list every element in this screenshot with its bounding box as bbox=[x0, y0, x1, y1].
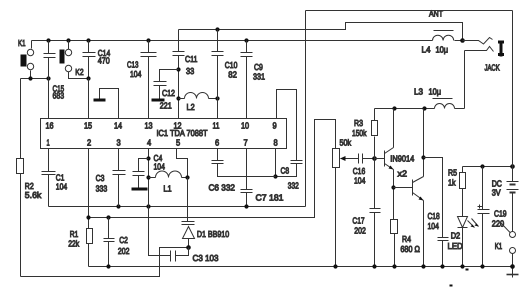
wire supply line R5 C19 battery bbox=[463, 166, 513, 168]
jack sleeve contact bbox=[465, 47, 494, 52]
svg-text:R1: R1 bbox=[70, 229, 79, 239]
resistor R4 bbox=[391, 220, 398, 267]
svg-text:332: 332 bbox=[288, 180, 299, 190]
switch K1 power bbox=[501, 223, 516, 267]
svg-text:221: 221 bbox=[160, 101, 172, 111]
switch K2 bbox=[60, 41, 89, 79]
svg-text:C3: C3 bbox=[96, 173, 105, 183]
svg-text:150k: 150k bbox=[352, 128, 367, 138]
wire pin14 to ground bbox=[100, 89, 119, 119]
svg-text:202: 202 bbox=[118, 246, 130, 256]
capacitor C4 bbox=[133, 159, 149, 188]
capacitor C7 bbox=[241, 149, 253, 207]
node bus-C14 bbox=[86, 38, 90, 42]
node bus-ground bbox=[510, 264, 515, 269]
node bus-R4 bbox=[392, 264, 396, 268]
node Q2collector-C18 bbox=[421, 155, 425, 159]
wire pin5 jog bbox=[177, 149, 188, 178]
svg-text:C19: C19 bbox=[494, 209, 507, 219]
inductor L1 bbox=[149, 171, 188, 178]
node bus-C9 bbox=[244, 38, 248, 42]
capacitor C16 bbox=[347, 154, 375, 164]
node wire2-pin2 bbox=[86, 215, 90, 219]
svg-text:L4: L4 bbox=[422, 44, 431, 54]
svg-text:14: 14 bbox=[114, 121, 122, 131]
svg-text:D2: D2 bbox=[451, 231, 461, 241]
node bus-C19 bbox=[480, 264, 484, 268]
svg-text:15: 15 bbox=[84, 121, 92, 131]
svg-text:IN9014: IN9014 bbox=[390, 154, 414, 164]
svg-text:R4: R4 bbox=[402, 234, 411, 244]
node bus-C17 bbox=[372, 264, 376, 268]
ground bar C12 bbox=[152, 99, 165, 102]
node ANT-C10 bbox=[215, 27, 219, 31]
svg-text:202: 202 bbox=[354, 225, 366, 235]
svg-text:C12: C12 bbox=[162, 88, 175, 98]
svg-text:C10: C10 bbox=[225, 60, 238, 70]
capacitor C18 bbox=[424, 158, 449, 267]
svg-text:5.6k: 5.6k bbox=[25, 190, 42, 200]
capacitor C3 103 bbox=[171, 248, 189, 262]
node bus-D2 bbox=[460, 264, 464, 268]
minus mark lower bbox=[450, 285, 453, 287]
wire pin8 bbox=[275, 149, 277, 177]
wire pin9 loop to C8 bbox=[277, 90, 297, 161]
wire pin4 column bbox=[149, 149, 171, 256]
svg-text:LED: LED bbox=[448, 241, 463, 251]
node C15-bottom pin16 bbox=[46, 76, 50, 80]
resistor R2 bbox=[17, 79, 24, 277]
svg-text:K1: K1 bbox=[18, 38, 26, 48]
svg-text:C6 332: C6 332 bbox=[209, 182, 236, 192]
svg-text:R3: R3 bbox=[354, 118, 363, 128]
node Q1emitter-Q2base bbox=[391, 185, 395, 189]
node K1-bottom bbox=[28, 76, 32, 80]
capacitor C3 pin3 bbox=[113, 149, 126, 207]
svg-text:R5: R5 bbox=[448, 168, 457, 178]
jack body bbox=[498, 41, 504, 57]
capacitor C6 bbox=[212, 149, 276, 177]
resistor R1 bbox=[87, 229, 93, 267]
wire ANT line from C11 top bbox=[179, 23, 463, 41]
ground bar pin14 bbox=[94, 99, 106, 102]
svg-text:331: 331 bbox=[253, 71, 265, 81]
svg-text:680 Ω: 680 Ω bbox=[400, 244, 420, 254]
wire RF box top edge bbox=[306, 10, 513, 12]
svg-text:6: 6 bbox=[215, 137, 219, 147]
wire top supply bus bbox=[32, 40, 433, 42]
svg-text:50k: 50k bbox=[340, 137, 352, 147]
node jack junction bbox=[460, 38, 465, 43]
ground symbol right bbox=[507, 267, 519, 278]
svg-text:C17: C17 bbox=[352, 215, 364, 225]
svg-text:104: 104 bbox=[56, 181, 68, 191]
svg-text:9: 9 bbox=[273, 121, 277, 131]
svg-text:104: 104 bbox=[354, 175, 366, 185]
svg-text:C2: C2 bbox=[119, 235, 128, 245]
capacitor C13 bbox=[141, 41, 157, 119]
capacitor C14 bbox=[83, 41, 96, 79]
svg-text:K2: K2 bbox=[75, 67, 83, 77]
inductor L4 bbox=[433, 31, 454, 41]
node pin8-C8-C6 bbox=[273, 174, 277, 178]
node bus-Q2emitter bbox=[421, 264, 425, 268]
svg-text:3V: 3V bbox=[492, 188, 501, 198]
svg-text:11: 11 bbox=[213, 121, 220, 131]
potentiometer 50k bbox=[333, 149, 347, 267]
jack tip contact bbox=[463, 38, 493, 45]
node bus-C2 bbox=[106, 264, 110, 268]
battery DC 3V bbox=[507, 11, 519, 232]
svg-text:L1: L1 bbox=[163, 183, 171, 193]
svg-text:333: 333 bbox=[96, 183, 108, 193]
svg-text:IC1 TDA 7088T: IC1 TDA 7088T bbox=[157, 128, 209, 138]
capacitor C12 bbox=[154, 70, 179, 99]
wire pin2 column bbox=[88, 149, 90, 229]
LED D2 bbox=[458, 217, 479, 267]
capacitor C19 electrolytic bbox=[478, 167, 490, 267]
node R3-C16-base bbox=[372, 156, 377, 161]
wire K1 bottom to C15/pin16 column bbox=[21, 78, 49, 80]
wire pin15 column bbox=[88, 79, 90, 119]
wire y109 feed line bbox=[375, 108, 435, 110]
wire L3 right to jack sleeve bbox=[464, 51, 466, 109]
svg-text:104: 104 bbox=[154, 161, 166, 171]
svg-text:3: 3 bbox=[117, 137, 121, 147]
capacitor C11 bbox=[173, 30, 185, 119]
wire tuning line R2 to D1 bbox=[21, 248, 189, 277]
node bus-C18 bbox=[440, 264, 444, 268]
node bus-pot bbox=[333, 264, 337, 268]
wire2 horizontal to pot bbox=[89, 120, 336, 218]
svg-text:4: 4 bbox=[147, 137, 151, 147]
svg-text:5: 5 bbox=[176, 137, 180, 147]
IC U1 TDA7088T box bbox=[41, 119, 287, 149]
wire1 horizontal under IC bbox=[49, 206, 306, 208]
svg-text:104: 104 bbox=[428, 221, 440, 231]
wire pin5 node to D1 bbox=[187, 178, 189, 222]
svg-text:K1: K1 bbox=[495, 241, 503, 251]
node L2-right bbox=[215, 96, 219, 100]
svg-text:x2: x2 bbox=[398, 168, 408, 178]
node bus-K2 bbox=[66, 38, 70, 42]
svg-text:13: 13 bbox=[145, 121, 153, 131]
capacitor C1 bbox=[42, 149, 56, 207]
node pin4-L1 bbox=[146, 175, 150, 179]
node C14-bottom pin15 bbox=[86, 76, 90, 80]
svg-text:10μ: 10μ bbox=[429, 86, 442, 96]
node L1-right pin5 bbox=[185, 175, 189, 179]
wire pin16 column bbox=[48, 79, 50, 119]
svg-text:16: 16 bbox=[46, 121, 54, 131]
capacitor C17 bbox=[370, 159, 381, 267]
svg-text:104: 104 bbox=[130, 69, 142, 79]
svg-text:470: 470 bbox=[98, 56, 110, 66]
svg-text:10μ: 10μ bbox=[436, 44, 449, 54]
svg-text:C11: C11 bbox=[185, 54, 198, 64]
svg-text:D1 BB910: D1 BB910 bbox=[197, 229, 229, 239]
svg-text:220: 220 bbox=[492, 218, 505, 228]
capacitor C2 bbox=[104, 218, 115, 267]
transistor Q2 IN9014 bbox=[394, 109, 424, 267]
node bus-C15 bbox=[46, 38, 50, 42]
node supply-battery bbox=[510, 164, 515, 169]
capacitor C10 bbox=[212, 30, 224, 119]
wire bus right of L4 to jack junction bbox=[455, 40, 463, 42]
node wire1-C7 bbox=[244, 204, 248, 208]
svg-text:8: 8 bbox=[274, 137, 278, 147]
svg-text:82: 82 bbox=[228, 70, 237, 80]
node supply-C19 bbox=[480, 164, 484, 168]
svg-text:C3 103: C3 103 bbox=[193, 253, 219, 263]
node pin4-C4 bbox=[146, 156, 150, 160]
node C11-C12 bbox=[176, 67, 180, 71]
svg-text:L3: L3 bbox=[414, 86, 423, 96]
svg-text:JACK: JACK bbox=[485, 62, 500, 72]
inductor L2 bbox=[179, 93, 218, 99]
capacitor C8 bbox=[276, 161, 303, 177]
switch K1 top-left bbox=[21, 41, 34, 79]
capacitor C15 bbox=[44, 41, 56, 79]
varactor diode D1 bbox=[182, 222, 195, 248]
svg-text:L2: L2 bbox=[187, 102, 195, 112]
node feed-Q1col bbox=[392, 106, 396, 110]
svg-text:22k: 22k bbox=[68, 238, 80, 248]
node feed-Q2col bbox=[422, 106, 426, 110]
svg-text:10: 10 bbox=[241, 121, 249, 131]
node wire1-C3 bbox=[116, 204, 120, 208]
svg-text:C18: C18 bbox=[428, 211, 440, 221]
svg-text:683: 683 bbox=[53, 91, 65, 101]
node wire2-C2 bbox=[106, 215, 110, 219]
node D1-bottom bbox=[186, 245, 191, 250]
wire bottom ground bus bbox=[89, 266, 513, 268]
svg-text:1k: 1k bbox=[448, 178, 456, 188]
svg-text:C8: C8 bbox=[281, 165, 290, 175]
resistor R3 bbox=[372, 109, 378, 159]
node L2-left bbox=[176, 96, 180, 100]
svg-text:2: 2 bbox=[87, 137, 91, 147]
ground bar C4 bbox=[132, 188, 148, 191]
minus mark near D2 bbox=[466, 269, 469, 271]
capacitor C9 bbox=[241, 41, 253, 119]
transistor Q1 IN9014 bbox=[375, 109, 394, 220]
svg-text:7: 7 bbox=[244, 137, 248, 147]
wire RF box left edge bbox=[305, 11, 307, 207]
svg-text:C13: C13 bbox=[127, 59, 139, 69]
svg-text:33: 33 bbox=[186, 66, 194, 76]
node wire1-pin4 bbox=[146, 204, 150, 208]
svg-text:C7 181: C7 181 bbox=[256, 192, 284, 202]
resistor R5 bbox=[460, 167, 466, 217]
inductor L3 bbox=[433, 99, 465, 109]
node bus-C13 bbox=[146, 38, 150, 42]
svg-text:1: 1 bbox=[47, 137, 50, 147]
